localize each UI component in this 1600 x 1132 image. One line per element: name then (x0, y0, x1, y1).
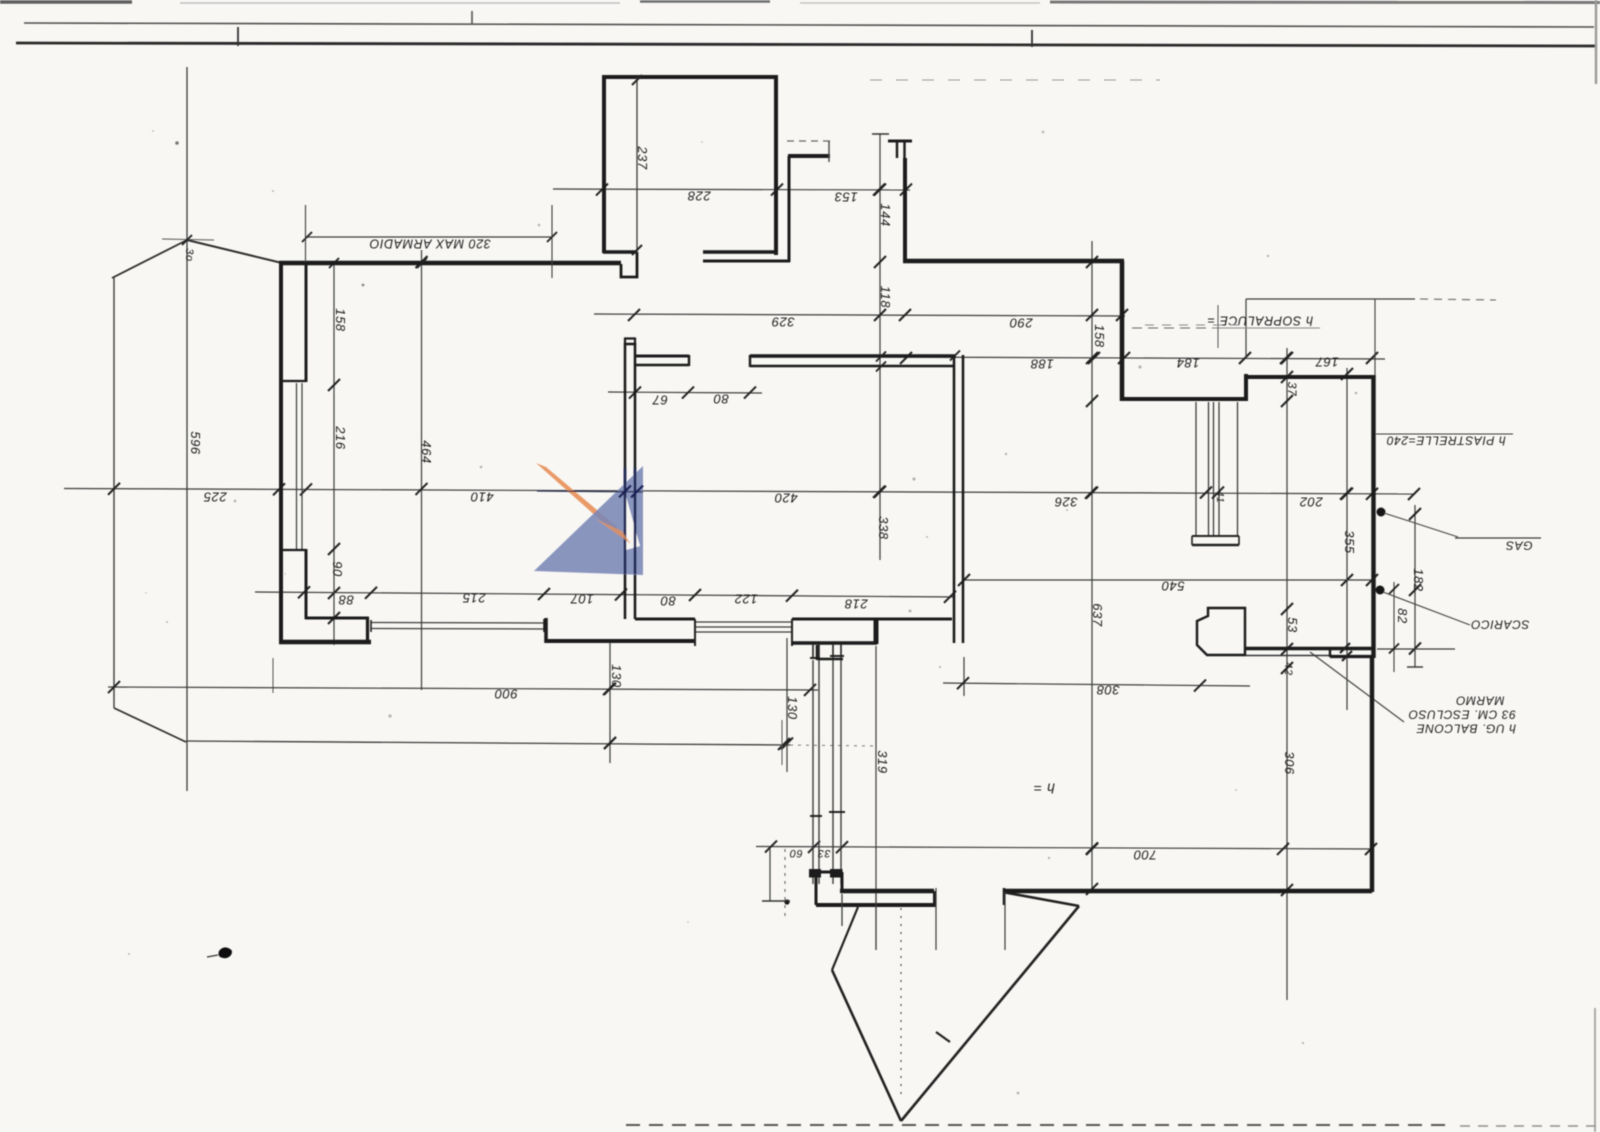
closet shape (1197, 608, 1245, 655)
dim line 355 x1347 (1346, 368, 1348, 710)
wall segment 792-877 outer (792, 641, 877, 645)
svg-text:308: 308 (1096, 683, 1120, 698)
svg-text:130: 130 (785, 696, 800, 720)
extension x305 up (305, 205, 307, 262)
dim line secondary y742 (186, 741, 790, 745)
svg-text:464: 464 (419, 440, 434, 464)
balcony room right wall (774, 75, 778, 255)
apex small dim bar (162, 239, 214, 240)
wall lower right y657 (1330, 655, 1372, 658)
svg-text:h PIASTRELLE=240: h PIASTRELLE=240 (1386, 434, 1505, 448)
wall top left room (279, 261, 621, 266)
door frame a (812, 643, 814, 659)
svg-text:329: 329 (771, 315, 795, 330)
bottom room bottom wall left (840, 889, 934, 894)
left outline vertical (113, 278, 115, 708)
page right edge lower (1594, 1008, 1596, 1132)
border line upper (24, 23, 1594, 27)
sopraluce bracket (1246, 298, 1415, 300)
dim line 130 left x610 (609, 643, 611, 763)
dim line 320 max armadio y237 (305, 236, 553, 238)
window A lines (371, 622, 544, 625)
dim line 464 x421 (421, 250, 423, 690)
border tick right (1031, 30, 1033, 47)
wall x1246 (1244, 374, 1248, 401)
dim line 88-215-107-80-122-218 y594 (255, 592, 955, 597)
slab end cap right (933, 891, 936, 906)
wall center room left double (624, 343, 627, 619)
stairs dim ticks (1200, 487, 1212, 499)
dim line 130 right x787 (786, 638, 788, 772)
faint dashes y80 (870, 79, 1160, 81)
wall left room inner upper (305, 263, 308, 382)
extension x964 (963, 657, 965, 696)
svg-text:167: 167 (1315, 355, 1339, 370)
wall x1122 (1120, 261, 1125, 401)
balcone leader (1310, 652, 1404, 722)
dim line 188-184-167 y358 (885, 357, 1385, 359)
ink dot bottom left (219, 947, 233, 958)
svg-text:53: 53 (1285, 617, 1300, 633)
roof apex diagonal left (112, 240, 187, 278)
dim line 144-118-338 x880 (879, 134, 881, 560)
window column left wall (815, 872, 818, 905)
watermark white notch (626, 496, 640, 550)
svg-text:h UG. BALCONE: h UG. BALCONE (1416, 722, 1516, 736)
svg-text:SCARICO: SCARICO (1471, 618, 1530, 632)
extension x1375 above wall (1374, 299, 1376, 375)
balcony slab edge (816, 903, 936, 907)
svg-text:540: 540 (1161, 579, 1185, 594)
dim line 182-82 x1415 (1414, 505, 1416, 667)
wall tick b (1342, 651, 1352, 661)
svg-text:80: 80 (660, 594, 676, 609)
wall notch top (621, 252, 637, 277)
gas leader (1384, 513, 1458, 537)
inner jamb x789 (788, 156, 791, 262)
svg-text:37: 37 (1285, 382, 1299, 397)
svg-text:158: 158 (333, 308, 348, 332)
svg-text:355: 355 (1342, 530, 1357, 554)
svg-text:182: 182 (1411, 568, 1426, 592)
svg-text:184: 184 (1176, 356, 1200, 371)
roof apex diagonal right (187, 240, 282, 263)
svg-text:202: 202 (1299, 495, 1324, 510)
stairs (1195, 402, 1197, 536)
dim line 67-80 y393 (608, 392, 762, 393)
svg-text:158: 158 (1092, 324, 1107, 348)
wall lower right inner thin (1246, 655, 1332, 657)
watermark orange sliver (536, 463, 632, 546)
wall left outer (279, 261, 283, 644)
wall center bottom top-face (635, 618, 695, 621)
window jamb A left (366, 618, 369, 642)
balcony room bottom right (703, 250, 778, 254)
svg-text:420: 420 (774, 491, 798, 506)
svg-text:306: 306 (1282, 751, 1297, 775)
wall left room inner bottom (305, 617, 369, 620)
left outline diagonal to 742 line (114, 708, 186, 742)
wall top right section y261 (903, 259, 1124, 264)
scarico leader (1383, 592, 1470, 625)
svg-text:42: 42 (1282, 662, 1294, 675)
watermark blue triangle (534, 466, 643, 575)
balcony room bottom left (603, 250, 637, 254)
svg-text:225: 225 (203, 490, 228, 505)
border line lower (16, 43, 1597, 46)
door swing dash (787, 140, 830, 142)
wall stub top y156 (788, 154, 830, 158)
svg-text:596: 596 (188, 431, 203, 455)
wall right outer x1373 (1371, 375, 1375, 658)
svg-text:326: 326 (1054, 495, 1078, 510)
wall end cap x1004 (1003, 888, 1006, 905)
svg-text:700: 700 (1133, 848, 1157, 863)
dim line 596 vertical (186, 67, 188, 791)
wall tick a (1340, 643, 1350, 653)
svg-text:93 CM. ESCLUSO: 93 CM. ESCLUSO (1408, 708, 1516, 722)
bottom room bottom wall right (1004, 889, 1372, 894)
svg-text:215: 215 (462, 591, 487, 606)
dim line 319 x876 (875, 646, 877, 950)
svg-text:h SOPRALUCE =: h SOPRALUCE = (1207, 314, 1313, 328)
faint dashes y325 right (1145, 324, 1243, 326)
wall bottom outer center (545, 639, 695, 643)
balcony inner bottom (703, 260, 790, 263)
triangle staircase mark (832, 907, 858, 970)
svg-text:144: 144 (878, 203, 893, 227)
wall x905 vertical (903, 158, 907, 262)
svg-text:153: 153 (834, 190, 858, 205)
dim line right of wall y648 (1377, 648, 1455, 650)
window jamb A right (544, 618, 548, 643)
dot at 742 line end (784, 899, 789, 904)
dim 237 vertical (636, 77, 638, 253)
dotted verticals below wall (841, 894, 843, 926)
svg-text:41: 41 (1214, 491, 1225, 503)
dim line 228-153 y189 (553, 189, 910, 190)
window B lines (695, 621, 792, 623)
svg-text:MARMO: MARMO (1456, 694, 1505, 708)
wall step x1330 (1329, 648, 1331, 657)
sheet top edge shadow (0, 0, 132, 4)
main horizontal dim line 225-410-420-326-202 (64, 489, 1414, 495)
svg-text:637: 637 (1090, 603, 1105, 627)
svg-text:67: 67 (652, 393, 668, 408)
wall center room right double (953, 355, 956, 643)
svg-text:900: 900 (494, 687, 518, 702)
dim line 158r-637 x1092 (1091, 241, 1093, 890)
svg-text:338: 338 (876, 516, 891, 540)
svg-text:118: 118 (878, 286, 893, 309)
svg-text:107: 107 (570, 592, 594, 607)
border tick left (237, 27, 239, 46)
watermark orange overlay tip (596, 519, 631, 544)
window-wall step (841, 872, 844, 891)
balcony room left wall (602, 76, 606, 253)
border tick small top (471, 11, 473, 24)
gas dot (1377, 508, 1386, 517)
svg-text:237: 237 (635, 145, 650, 170)
scan speckles (538, 224, 541, 227)
extension x273 (272, 658, 274, 693)
svg-text:188: 188 (1030, 357, 1054, 372)
corner nub (625, 339, 635, 345)
window left wall (296, 383, 298, 549)
svg-text:218: 218 (844, 597, 869, 612)
dim 60 bracket (769, 849, 771, 901)
tick on wall x422 (417, 258, 427, 268)
T pillar (888, 140, 912, 143)
dim line 329-290 y315 (594, 314, 1125, 316)
wall y399 (1120, 397, 1248, 401)
page right edge upper (1595, 0, 1597, 84)
wall bottom outer left (279, 640, 371, 645)
extension x552 (551, 205, 553, 278)
door frame b (832, 643, 834, 657)
svg-text:216: 216 (333, 425, 348, 450)
wall step above window column (817, 658, 843, 661)
svg-text:320 MAX ARMADIO: 320 MAX ARMADIO (369, 237, 491, 251)
svg-text:3o: 3o (183, 248, 195, 261)
watermark navy wall overdraw (624, 468, 627, 574)
wall connector x876 (874, 619, 879, 644)
balcony room top wall (602, 75, 777, 79)
svg-text:33: 33 (817, 847, 831, 859)
svg-text:130: 130 (609, 664, 624, 688)
svg-text:h =: h = (1033, 781, 1055, 797)
svg-text:228: 228 (687, 189, 712, 204)
svg-text:88: 88 (338, 593, 354, 608)
svg-text:290: 290 (1009, 316, 1034, 331)
svg-text:122: 122 (734, 592, 758, 607)
dim line 900 y688 (108, 687, 818, 690)
wall right lower x1372 (1370, 655, 1374, 892)
svg-text:90: 90 (330, 561, 345, 577)
triangle arrow tick (936, 1032, 950, 1042)
dim line 216-90 x334 (333, 262, 335, 645)
dim line 540 y580 (964, 579, 1375, 581)
dim line 308 y684 (943, 683, 1250, 686)
bottom dashed sheet line (626, 1124, 1452, 1126)
wall center room top stub right (750, 354, 956, 358)
dim line 700 y849 (756, 847, 1373, 850)
piastrelle line (1376, 433, 1513, 435)
svg-text:319: 319 (875, 750, 890, 774)
svg-text:80: 80 (713, 392, 729, 407)
balcony window column (812, 660, 814, 884)
scarico dot (1376, 586, 1385, 595)
dim line 37-53-42-306 x1287 (1286, 348, 1288, 1000)
wall y377 (1244, 375, 1375, 379)
wall left room inner lower (283, 549, 306, 551)
svg-text:60: 60 (789, 847, 803, 859)
dim vertical x1394 (1393, 582, 1395, 672)
svg-text:82: 82 (1395, 608, 1410, 624)
svg-text:GAS: GAS (1505, 539, 1532, 553)
svg-text:410: 410 (470, 490, 494, 505)
wall lower right y649 (1246, 647, 1374, 650)
wall center room top stub left (636, 355, 689, 358)
